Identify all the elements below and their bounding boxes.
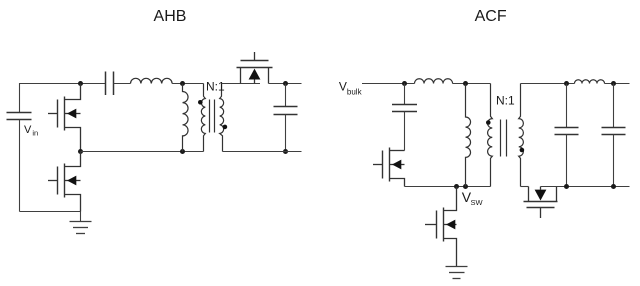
wire: series cap to inductor Lr [114, 83, 131, 85]
svg-text:bulk: bulk [347, 88, 363, 97]
inductor Lk (leakage, horizontal) [415, 79, 453, 84]
svg-text:SW: SW [471, 198, 484, 207]
capacitor Cin (input) [7, 113, 32, 120]
wire: Lk to T2 primary top [453, 83, 491, 85]
svg-text:AHB: AHB [154, 8, 187, 25]
wire: Lr to transformer primary top [172, 83, 203, 85]
mosfet Q1 (high-side) [48, 84, 81, 152]
inductor Lm (magnetizing) [183, 84, 189, 152]
mosfet Q4 (clamp switch) [373, 148, 405, 187]
inductor Lr (resonant, horizontal) [131, 78, 173, 83]
svg-text:ACF: ACF [475, 8, 507, 25]
wire: T2 secondary top rail [521, 83, 630, 85]
wire: VSW rail [405, 186, 491, 188]
junction dot: top rail / Lm top [180, 81, 185, 86]
wire: Q3 to output node [269, 83, 302, 85]
svg-text:V: V [339, 80, 347, 94]
junction dot: VSW / Q5 drain [454, 184, 459, 189]
junction dot: output bottom [283, 149, 288, 154]
junction dot: switch node [78, 149, 83, 154]
svg-text:N:1: N:1 [206, 79, 225, 93]
ground (ACF) [446, 267, 468, 279]
mosfet Q5 (main switch) [425, 187, 457, 267]
junction dot: switch node / Lm bottom [180, 149, 185, 154]
wire: switch node rail [81, 151, 204, 153]
wire: ACF output bottom rail [541, 186, 630, 188]
ground (AHB) [70, 212, 92, 234]
svg-text:in: in [32, 129, 38, 138]
svg-text:V: V [24, 124, 32, 136]
junction dot: VSW / Lm2 bottom [463, 184, 468, 189]
transformer T1 secondary winding [220, 84, 224, 152]
junction dot: output top [283, 81, 288, 86]
mosfet Q6 (sync rectifier, gate down) [524, 187, 558, 219]
wire: T2 secondary bottom to Q6 [521, 186, 529, 188]
junction dot: output node A bottom [564, 184, 569, 189]
transformer T1 primary winding [201, 84, 205, 152]
junction dot: output node A top [564, 81, 569, 86]
inductor Lm2 (magnetizing) [466, 84, 471, 187]
wire: AHB top rail from input cap to series cap [20, 84, 106, 113]
transformer T2 core [501, 120, 507, 157]
capacitor Cclamp [404, 84, 406, 105]
polarity dot: T1 secondary [223, 125, 228, 130]
capacitor Cr (series resonant) [106, 72, 114, 96]
svg-text:N:1: N:1 [496, 93, 515, 107]
wire: T1 secondary top to Q3 [222, 83, 261, 85]
wire: T1 secondary bottom rail [223, 151, 302, 153]
mosfet Q3 (sync rectifier, gate up) [237, 52, 273, 84]
inductor Lo (output filter) [575, 80, 605, 84]
transformer T2 primary winding [488, 84, 493, 187]
junction dot: Lm2 top [463, 81, 468, 86]
transformer T1 core [210, 100, 215, 133]
junction dot: output node B bottom [611, 184, 616, 189]
wire: AHB bottom rail [20, 211, 81, 213]
wire: ACF top rail from Vbulk to Lk [362, 83, 415, 85]
polarity dot: T1 primary [198, 100, 203, 105]
polarity dot: T2 secondary [520, 148, 525, 153]
transformer T2 secondary winding [519, 84, 524, 187]
junction dot: AHB top rail / Q1 drain [78, 81, 83, 86]
wire: input cap bottom to bottom rail [19, 120, 21, 212]
capacitor Co2 [613, 84, 615, 128]
mosfet Q2 (low-side) [48, 152, 81, 212]
junction dot: clamp node [402, 81, 407, 86]
capacitor Co1 [566, 84, 568, 128]
capacitor Cout (AHB output) [285, 84, 287, 107]
polarity dot: T2 primary [486, 120, 491, 125]
junction dot: output node B top [611, 81, 616, 86]
